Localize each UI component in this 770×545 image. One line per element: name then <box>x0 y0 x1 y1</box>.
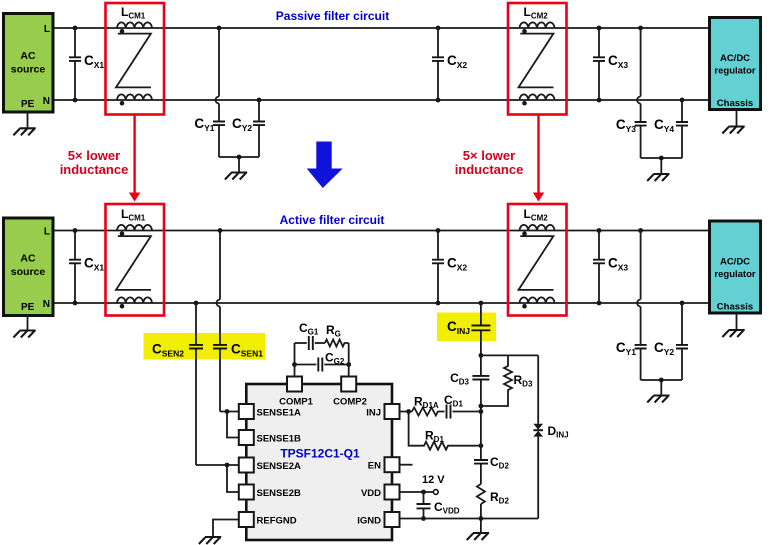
pin COMP1 <box>287 377 302 392</box>
svg-text:COMP1: COMP1 <box>279 397 314 408</box>
wire SENSE2A connection <box>196 464 239 466</box>
choke LCM2 red box (top) <box>508 3 567 115</box>
svg-text:INJ: INJ <box>366 408 381 419</box>
capacitor CY2 (bottom) <box>680 301 685 306</box>
capacitor CVDD <box>423 492 425 519</box>
AC source box <box>4 14 54 113</box>
yellow highlight CSEN <box>144 333 266 360</box>
resistor RG <box>325 340 349 347</box>
svg-text:SENSE1B: SENSE1B <box>257 434 301 445</box>
AC source box (bottom) <box>4 218 54 316</box>
svg-text:inductance: inductance <box>60 162 129 177</box>
SECTION: IC and injection network <box>196 321 569 544</box>
chassis ground (top) <box>736 110 738 127</box>
svg-text:AC/DC: AC/DC <box>720 257 750 268</box>
svg-text:inductance: inductance <box>455 162 524 177</box>
capacitor CY2 (top) <box>257 98 262 103</box>
capacitor CINJ <box>479 301 484 306</box>
svg-text:SENSE2B: SENSE2B <box>257 488 301 499</box>
wire L line (top) <box>54 27 708 29</box>
svg-text:REFGND: REFGND <box>257 516 297 527</box>
svg-text:source: source <box>11 64 46 76</box>
pin INJ <box>385 404 400 419</box>
svg-text:TPSF12C1-Q1: TPSF12C1-Q1 <box>280 447 360 461</box>
pin SENSE1B <box>239 430 254 445</box>
svg-text:L: L <box>44 24 50 35</box>
capacitor CX2 (top) <box>436 26 441 31</box>
wire EN stub <box>400 464 413 466</box>
SECTION: active filter circuit (bottom) <box>4 204 761 465</box>
svg-text:regulator: regulator <box>714 66 755 77</box>
pin EN <box>385 457 400 472</box>
ground under AC source (bottom) <box>27 316 29 331</box>
wire SENSE1A connection <box>220 411 239 413</box>
svg-text:Passive filter circuit: Passive filter circuit <box>276 9 389 23</box>
yellow highlight CINJ <box>437 313 496 342</box>
pin SENSE2A <box>239 458 254 473</box>
resistor RD1A <box>412 408 445 416</box>
svg-text:PE: PE <box>21 99 35 110</box>
red arrow left (5x lower inductance) <box>133 115 135 193</box>
ground REFGND <box>199 537 221 544</box>
big blue arrow <box>307 142 343 189</box>
diode DINJ (TVS) <box>537 355 539 518</box>
AC/DC regulator box (bottom) <box>710 221 761 313</box>
wire INJ node <box>400 411 413 413</box>
ground of CY1/CY2 (top) <box>219 157 259 173</box>
op-amp U1 TPSF12C1-Q1 body <box>246 384 392 540</box>
pin VDD <box>385 485 400 500</box>
capacitor CSEN1 <box>218 228 223 233</box>
capacitor CSEN2 <box>194 301 199 306</box>
choke LCM2 windings and Z core (top) <box>519 22 555 105</box>
resistor RD1 <box>409 412 481 450</box>
svg-text:EN: EN <box>368 461 381 472</box>
svg-text:SENSE1A: SENSE1A <box>257 408 301 419</box>
choke LCM2 windings and Z core (bottom) <box>519 225 555 309</box>
capacitor CG1 <box>295 342 307 344</box>
wire VDD to 12V terminal <box>400 491 434 493</box>
wire REFGND connection <box>213 520 239 538</box>
wire N line (bottom) <box>54 302 708 304</box>
svg-text:5× lower: 5× lower <box>68 148 120 163</box>
svg-text:AC/DC: AC/DC <box>720 53 750 64</box>
SECTION: passive filter circuit (top) <box>4 3 761 181</box>
capacitor CG2 <box>295 364 317 366</box>
capacitor CD1 <box>447 405 451 419</box>
svg-text:L: L <box>44 227 50 238</box>
svg-text:N: N <box>43 299 50 310</box>
capacitor CX1 (top) <box>73 26 78 31</box>
svg-text:COMP2: COMP2 <box>333 397 367 408</box>
capacitor CX3 (top) <box>597 26 602 31</box>
choke LCM1 windings and Z core (bottom) <box>116 225 152 309</box>
svg-text:N: N <box>43 96 50 107</box>
svg-text:PE: PE <box>21 302 35 313</box>
capacitor CD2 <box>474 460 488 464</box>
ground of CY3/CY4 (top) <box>641 158 682 174</box>
wire SENSE2B connection <box>227 465 239 492</box>
pin IGND <box>385 512 400 527</box>
svg-text:Chassis: Chassis <box>717 98 753 109</box>
SECTION: middle annotations <box>60 115 545 202</box>
capacitor CX2 (bottom) <box>436 228 441 233</box>
wire L line (bottom) <box>54 230 708 232</box>
capacitor CX1 (bottom) <box>73 228 78 233</box>
choke LCM1 red box (bottom) <box>106 204 165 316</box>
wire COMP2 riser <box>348 343 350 377</box>
chassis ground (bottom) <box>736 314 738 331</box>
red arrow right (5x lower inductance) <box>537 115 539 193</box>
AC/DC regulator box (top) <box>710 18 761 110</box>
svg-text:Active filter circuit: Active filter circuit <box>280 213 385 227</box>
resistor RD2 <box>477 484 485 504</box>
choke LCM1 red box (top) <box>106 3 165 115</box>
svg-text:Chassis: Chassis <box>717 302 753 313</box>
ground of CY1/CY2 (bottom) <box>641 380 682 396</box>
pin REFGND <box>239 512 254 527</box>
ground IGND <box>480 519 482 534</box>
ground under AC source <box>27 113 29 129</box>
capacitor CY1 (bottom) <box>638 228 643 233</box>
svg-text:AC: AC <box>20 253 36 265</box>
svg-text:SENSE2A: SENSE2A <box>257 461 301 472</box>
choke LCM2 red box (bottom) <box>508 204 567 316</box>
svg-text:source: source <box>11 266 46 278</box>
resistor RD3 <box>481 355 538 406</box>
svg-text:VDD: VDD <box>361 488 381 499</box>
node 12V terminal <box>433 490 438 495</box>
svg-text:AC: AC <box>20 50 36 62</box>
capacitor CY1 (top) <box>217 26 222 31</box>
wire injection main vertical <box>480 355 482 518</box>
pin COMP2 <box>341 377 356 392</box>
svg-text:5× lower: 5× lower <box>463 148 515 163</box>
wire COMP1 riser <box>294 343 296 377</box>
svg-text:regulator: regulator <box>714 269 755 280</box>
choke LCM1 windings and Z core (top) <box>116 22 152 105</box>
wire IGND bottom rail <box>400 518 539 520</box>
svg-text:12 V: 12 V <box>422 474 445 486</box>
svg-text:IGND: IGND <box>357 516 381 527</box>
capacitor CY4 (top) <box>680 98 685 103</box>
pin SENSE1A <box>239 404 254 419</box>
capacitor CD3 <box>472 376 489 380</box>
capacitor CX3 (bottom) <box>597 228 602 233</box>
capacitor CY3 (top) <box>638 26 643 31</box>
wire SENSE1B connection <box>227 412 239 438</box>
wire N line (top) <box>54 99 708 101</box>
pin SENSE2B <box>239 485 254 500</box>
